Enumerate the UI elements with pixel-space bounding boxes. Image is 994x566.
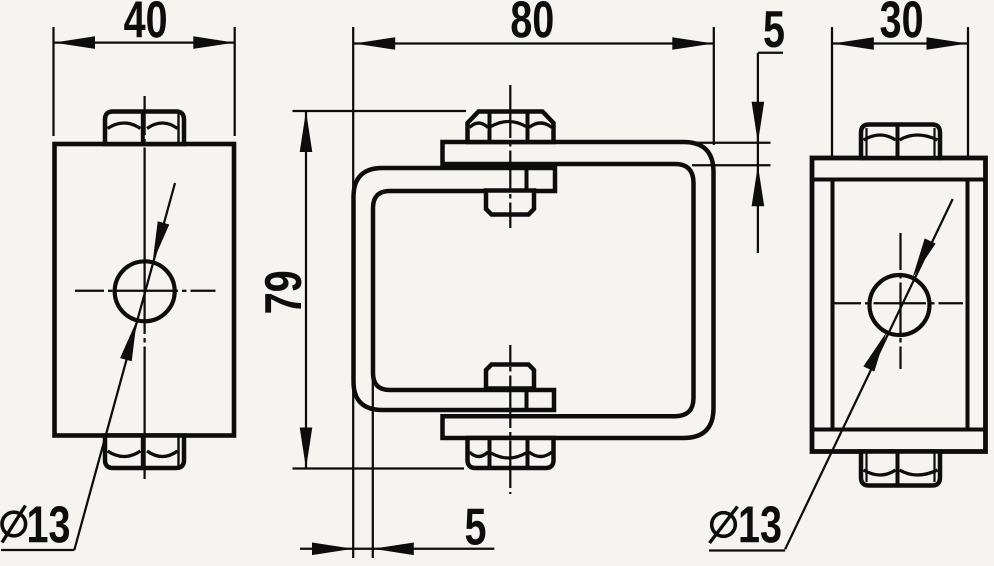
left view top bolt head [105, 112, 184, 145]
left view vertical centerline [143, 96, 145, 135]
dim 40 extension line left [52, 27, 54, 136]
dim 40 extension line right [234, 27, 236, 136]
right leader arrow upper [913, 238, 936, 278]
dim 40 line [54, 41, 234, 43]
dim 5 bottom arrow right [373, 543, 414, 556]
dim 5 right arrow lower [752, 165, 765, 206]
left view hole circle [115, 261, 175, 321]
dim 30 line [833, 42, 968, 44]
right view bottom flange line [812, 428, 986, 432]
middle top bolt axis [509, 85, 511, 138]
right Ø13 text [741, 506, 781, 543]
middle bottom nut [486, 365, 534, 389]
left view bottom bolt head [105, 436, 184, 469]
dim 30 extension line left [831, 27, 833, 156]
strap A bottom end cell line [525, 390, 529, 410]
left leader shoulder [1, 549, 74, 551]
dim 80 extension line right [713, 27, 715, 145]
dim 5 bottom arrow left [312, 543, 353, 556]
dim 5 right text [764, 11, 784, 47]
dim 79 arrow bottom [300, 428, 313, 469]
right leader shoulder [709, 549, 785, 551]
dim 5 right ref line upper [690, 142, 771, 144]
dim 5 right vertical line [757, 53, 759, 253]
dim 40 text [124, 1, 166, 38]
right view top bolt head [861, 125, 940, 159]
right diameter symbol [712, 513, 736, 537]
dim 30 extension line right [967, 27, 969, 156]
dim 5 right shoulder [758, 52, 783, 54]
dim 30 text [881, 1, 922, 38]
dim 80 line [354, 42, 713, 44]
middle strap piece B [443, 142, 714, 438]
dim 79 line [305, 112, 307, 468]
right view bottom bolt head [861, 452, 940, 486]
dim 5 bottom line [300, 548, 494, 550]
dim 79 extension line bottom [293, 467, 465, 469]
dim 5 bottom ext line inner [372, 374, 374, 558]
middle top nut [486, 191, 534, 215]
middle strap piece A [354, 168, 556, 410]
right view body outline [812, 158, 986, 452]
dim 80 text [512, 1, 553, 38]
right view inner edge left [831, 180, 835, 430]
dim 30 arrow left [833, 37, 874, 50]
dim 79 text [265, 272, 302, 313]
right view horizontal centerline [833, 302, 861, 304]
strap A top end cell line [525, 168, 529, 191]
left Ø13 text [29, 506, 69, 543]
right view vertical centerline [899, 233, 901, 270]
dim 79 arrow top [300, 111, 313, 152]
middle bottom bolt head [468, 438, 554, 468]
dim 80 arrow left [354, 37, 395, 50]
right leader arrow lower [863, 332, 886, 372]
left leader arrow upper [153, 221, 170, 262]
left view horizontal centerline [75, 290, 104, 292]
dim 80 arrow right [672, 37, 713, 50]
left leader line [74, 183, 175, 550]
left leader arrow lower [120, 320, 137, 361]
dim 5 bottom text [466, 509, 486, 545]
dim 40 arrow right [193, 36, 234, 49]
dim 5 right arrow upper [752, 102, 765, 143]
middle bottom bolt axis [509, 345, 511, 363]
dim 79 extension line top [293, 110, 467, 112]
dim 5 right ref line lower [692, 164, 771, 166]
right view top flange line [812, 178, 986, 182]
right view hole circle [870, 275, 930, 335]
dim 40 arrow left [54, 36, 95, 49]
right view inner edge right [966, 180, 970, 430]
middle top bolt head [468, 112, 554, 143]
left diameter symbol [2, 512, 26, 536]
left view plate outline [55, 144, 235, 436]
dim 30 arrow right [927, 37, 968, 50]
dim 80 extension line left [352, 27, 354, 558]
right leader line [785, 199, 953, 549]
